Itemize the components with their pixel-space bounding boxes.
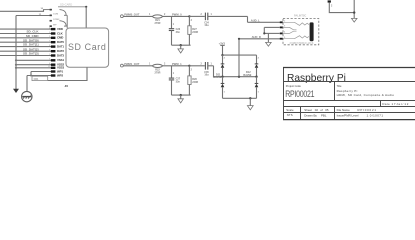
wire junction to C34 [189, 15, 204, 17]
pads WP pins [51, 70, 56, 76]
ground (SD bus, filled) [13, 89, 19, 93]
switch SW1 common row [50, 14, 68, 16]
pad SW pin 12 [50, 20, 52, 22]
wire SD CMD row [0, 37, 54, 39]
shunt R27 riser [188, 16, 190, 25]
svg-text:220R: 220R [192, 31, 198, 34]
svg-text:CMD: CMD [57, 36, 63, 40]
pad SW pin 13 [50, 25, 52, 27]
jack sleeve stubs [283, 27, 297, 29]
svg-text:DAT1: DAT1 [57, 45, 64, 49]
wire jack ground bus [263, 27, 265, 33]
shunt C27 riser [171, 66, 173, 78]
svg-text:Sheet02of05: Sheet02of05 [304, 108, 329, 112]
wire R21 to junction [162, 15, 189, 17]
svg-text:270R: 270R [155, 72, 161, 75]
svg-text:File NameRPI00021: File NameRPI00021 [337, 108, 377, 112]
wire top right bent [329, 3, 354, 13]
svg-text:COM2: COM2 [53, 19, 60, 21]
shunt R28 riser [188, 66, 190, 76]
junction shunt ch0 [180, 44, 182, 46]
ground ESD (hollow) [247, 106, 253, 110]
wire SD CLK row [0, 33, 54, 35]
svg-text:2: 2 [224, 58, 226, 60]
wire SD-CARD vertical into block [85, 7, 87, 28]
shunt C26 riser [171, 16, 173, 28]
switch SW1 row pin10 [44, 9, 53, 11]
svg-text:17Jan'12: 17Jan'12 [392, 102, 410, 106]
component CD/WP box [32, 76, 48, 80]
svg-text:220R: 220R [192, 81, 198, 84]
wire R27 bottom [188, 34, 190, 45]
SD pin numbers column [48, 28, 51, 69]
capacitor C27 (shunt) [169, 78, 174, 80]
wire top-left row to SD switch pin 10 [0, 9, 44, 11]
svg-text:NTS: NTS [287, 113, 293, 117]
svg-text:SD_DAT[1]: SD_DAT[1] [23, 43, 38, 47]
svg-text:1: 1 [258, 91, 260, 93]
wire VSS1 row [16, 59, 54, 61]
wire corner down AUD_L [247, 16, 249, 22]
wire PWM0 to R21 [123, 15, 153, 17]
diode D11 upper (BAV99) [221, 55, 225, 77]
pad top right pin [328, 0, 331, 2]
svg-text:SD_CMD: SD_CMD [26, 34, 40, 38]
capacitor C35 (series) [205, 62, 207, 70]
chassis plus mark [30, 94, 32, 96]
wire SD DAT1 row [0, 46, 54, 48]
title block top border [283, 67, 415, 69]
svg-text:CD1: CD1 [34, 78, 39, 81]
svg-text:PWM1_OUT: PWM1_OUT [124, 62, 140, 66]
wire +3V3 stem [222, 45, 224, 55]
junction VSS3 [15, 67, 17, 69]
wire ground stem [249, 98, 251, 105]
svg-text:Raspberry Pi: Raspberry Pi [287, 73, 346, 84]
wire AUD_L to jack [248, 21, 281, 23]
junction PWM_1 node [188, 65, 190, 67]
junction jack ground [263, 32, 265, 34]
svg-text:33n: 33n [176, 81, 181, 84]
switch SW2 row WP [50, 25, 68, 27]
svg-text:HDMI, SD Card, Composite & Aud: HDMI, SD Card, Composite & Audio [337, 93, 395, 97]
diode D11 lower (BAV99) [221, 77, 225, 99]
svg-text:BAV99: BAV99 [213, 76, 221, 79]
svg-text:1: 1 [173, 24, 175, 26]
ground top right (hollow) [352, 18, 358, 22]
svg-text:Scale: Scale [286, 108, 294, 112]
switch SW2 row [50, 20, 53, 22]
resistor R28 (box) [188, 76, 191, 85]
wire ESD ground rail [223, 97, 257, 99]
wire junction to C35 [189, 65, 204, 67]
ground jack (hollow) [266, 42, 272, 46]
svg-text:Drawn ByPBL: Drawn ByPBL [304, 114, 327, 118]
svg-text:1: 1 [173, 73, 175, 75]
svg-text:Project Code: Project Code [286, 84, 302, 88]
svg-text:Issue/PMR Level1.0/10071: Issue/PMR Level1.0/10071 [337, 114, 384, 118]
pad SW pin 11 [50, 15, 52, 17]
svg-text:33n: 33n [176, 31, 181, 34]
capacitor C34 (series) [205, 13, 207, 21]
svg-text:VSS1: VSS1 [57, 58, 64, 62]
SD pin names column [57, 27, 64, 69]
svg-text:RPI00021: RPI00021 [285, 89, 315, 99]
svg-text:2: 2 [191, 70, 193, 72]
junction VSS1 [15, 59, 17, 61]
resistor R22 (oval body) [153, 64, 163, 67]
svg-text:COM: COM [53, 14, 58, 16]
jack tip contact [283, 22, 309, 25]
SD Card block outline [66, 28, 109, 67]
wire C26 bottom [171, 31, 173, 46]
divider date cell [380, 101, 382, 107]
wire AUD_R riser up [239, 39, 280, 77]
wire SD VDD row [0, 28, 54, 30]
net input PWM1_OUT open circle [121, 64, 124, 67]
switch SW1 arc [60, 10, 67, 16]
junction top right [353, 11, 355, 13]
wire VSS3 row [16, 67, 54, 69]
svg-text:PWM_0: PWM_0 [172, 12, 182, 16]
wire SD-CARD net horizontal [58, 6, 86, 8]
SD connector J6 pin pads [51, 28, 56, 69]
svg-text:PWM0_OUT: PWM0_OUT [124, 12, 140, 16]
wire jack ground stub upper [264, 26, 280, 28]
wire shunt join ch1 [172, 94, 191, 96]
line above date row [283, 100, 415, 102]
junction AUD_R row [238, 38, 240, 40]
svg-text:DAT0: DAT0 [57, 40, 64, 44]
junction SD-CARD corner [85, 6, 87, 8]
svg-text:2: 2 [331, 6, 333, 8]
junction AUD_R tap [238, 76, 240, 78]
junction PWM_0 node [188, 15, 190, 17]
switch SW2 arc [60, 21, 67, 26]
chassis ground circle [22, 91, 32, 101]
svg-text:SD-CARD: SD-CARD [60, 3, 72, 7]
wire SD DAT2 row [0, 50, 54, 52]
junction VSS2 [15, 64, 17, 66]
wire jack ground stub lower [264, 32, 280, 34]
svg-text:WP: WP [53, 24, 57, 26]
junction shunt ch1 [180, 94, 182, 96]
jack pin numbers [284, 20, 286, 38]
svg-text:PWM_1: PWM_1 [172, 62, 182, 66]
pin names WP [57, 70, 63, 78]
wire VSS2 row [16, 64, 54, 66]
wire ground bus vertical [15, 16, 17, 90]
svg-text:10u: 10u [204, 24, 209, 27]
divider filename cell [334, 107, 336, 121]
svg-text:SD Card: SD Card [68, 42, 106, 52]
svg-text:3.5MM STEREO JACK: 3.5MM STEREO JACK [290, 42, 314, 45]
wire step down to midpoint rail [214, 66, 257, 77]
audio jack sleeve bar [310, 22, 314, 41]
svg-text:WP2: WP2 [57, 74, 63, 78]
divider project/title [334, 82, 336, 101]
junction ground rail [249, 97, 251, 99]
svg-text:Date: Date [382, 102, 390, 106]
junction +3V3 rail [221, 54, 223, 56]
wire top right vertical [353, 0, 355, 18]
svg-text:2: 2 [258, 58, 260, 60]
pad SW pin 10 [50, 9, 52, 11]
svg-text:270R: 270R [155, 22, 161, 25]
divider scale cell [300, 107, 302, 121]
ground ch1 (hollow) [178, 99, 184, 103]
wire WP corner vertical [30, 72, 32, 76]
wire switch bus vertical [66, 15, 68, 28]
line between bottom rows [283, 112, 415, 114]
jack pin pads [280, 21, 283, 39]
wire stem to ground ch0 [180, 45, 182, 49]
svg-text:AUD_R: AUD_R [252, 35, 261, 39]
junction D11 midpoint [221, 76, 223, 78]
svg-text:SD_DAT[0]: SD_DAT[0] [23, 38, 38, 42]
wire SD VSS branch horizontal [16, 15, 50, 17]
svg-text:SD_DAT[3]: SD_DAT[3] [23, 52, 38, 56]
wire WP2 row [27, 75, 54, 77]
jack ring contact [283, 36, 309, 39]
svg-text:10u: 10u [204, 74, 209, 77]
title block bottom border [283, 119, 415, 121]
net input PWM0_OUT open circle [121, 15, 124, 18]
ground ch0 (hollow) [178, 49, 184, 53]
capacitor C26 (shunt) [169, 29, 174, 31]
svg-text:PAL/NTSC: PAL/NTSC [294, 15, 307, 18]
wire SD DAT0 row [0, 41, 54, 43]
wire shunt join ch0 [172, 44, 191, 46]
title block left border [283, 67, 285, 120]
resistor R21 (oval body) [153, 15, 163, 18]
svg-text:2: 2 [191, 20, 193, 22]
wire +3V3 rail [223, 54, 257, 56]
line above sheet row [283, 106, 415, 108]
wire PWM1 to R22 [123, 65, 153, 67]
svg-text:Title: Title [337, 84, 342, 88]
resistor R27 (box) [188, 26, 191, 35]
wire C27 bottom [171, 80, 173, 95]
power +3V3 bar [220, 44, 224, 46]
wire to chassis circle [26, 76, 28, 92]
diode D12 lower (BAV99) [255, 77, 259, 99]
svg-text:DAT3: DAT3 [57, 53, 64, 57]
svg-text:1: 1 [224, 91, 226, 93]
wire C34 to corner [208, 15, 248, 17]
wire SD DAT3 row [0, 55, 54, 57]
wire WP1 row [31, 71, 54, 73]
wire R22 to junction [162, 65, 189, 67]
wire SD block bottom stub [48, 67, 87, 80]
junction D12 midpoint [255, 76, 257, 78]
wire stem to ground ch1 [180, 95, 182, 99]
diode D12 upper (BAV99) [255, 55, 259, 77]
svg-text:J6: J6 [65, 84, 69, 88]
junction WP [30, 75, 32, 77]
svg-text:BAV99: BAV99 [243, 74, 251, 77]
wire C35 right [208, 65, 214, 67]
title block line under name [283, 81, 415, 83]
wire R28 bottom [188, 85, 190, 96]
audio jack J7 dashed outline [283, 19, 319, 45]
